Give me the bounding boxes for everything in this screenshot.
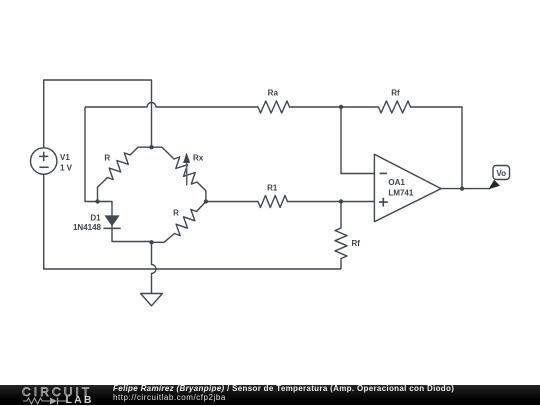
- svg-text:OA1: OA1: [388, 178, 405, 187]
- svg-text:LM741: LM741: [388, 189, 413, 198]
- svg-text:1 V: 1 V: [60, 163, 73, 172]
- svg-text:V1: V1: [60, 153, 70, 162]
- svg-text:Rf: Rf: [391, 88, 400, 97]
- svg-text:Rx: Rx: [193, 154, 204, 163]
- svg-text:Vo: Vo: [496, 169, 506, 178]
- svg-text:D1: D1: [90, 214, 101, 223]
- svg-text:R: R: [173, 208, 179, 217]
- svg-text:Ra: Ra: [268, 88, 279, 97]
- svg-text:1N4148: 1N4148: [73, 223, 102, 232]
- svg-text:R1: R1: [267, 184, 278, 193]
- svg-text:R: R: [104, 153, 110, 162]
- svg-text:Rf: Rf: [352, 239, 361, 248]
